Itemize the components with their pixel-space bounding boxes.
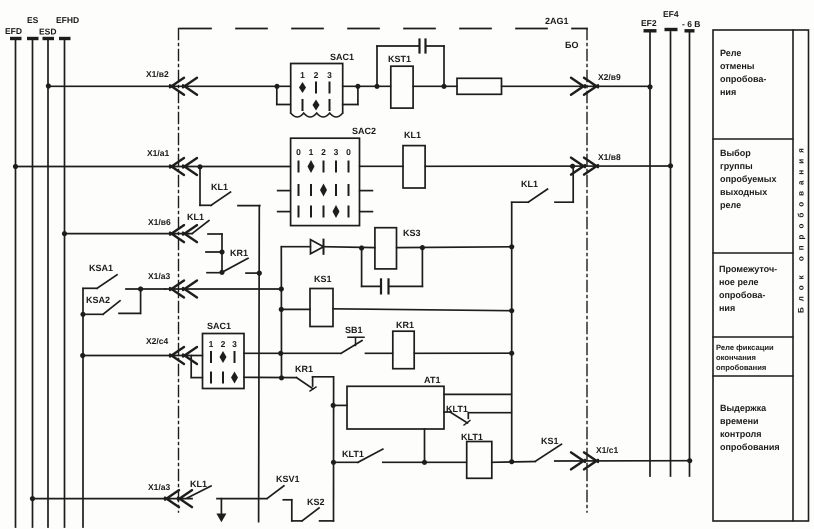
svg-text:Блок опробования: Блок опробования [797, 142, 806, 313]
note: Промежуточное реле опробования [719, 264, 777, 313]
connector X2/с4 [146, 336, 197, 364]
bus EF2 [641, 18, 657, 476]
svg-text:ния: ния [720, 87, 736, 97]
contact KS2 [302, 497, 334, 521]
wire row4 to junction 281 [165, 286, 284, 291]
relay coil KS1 [310, 274, 514, 327]
wire row3 from EFHD bus [62, 231, 192, 236]
contact KL1 (row3) [187, 212, 222, 234]
svg-text:времени: времени [720, 416, 759, 426]
wire vertical 259 [257, 206, 262, 522]
svg-text:опробования: опробования [716, 363, 766, 372]
svg-text:Промежуточ-: Промежуточ- [719, 264, 777, 274]
button SB1 [341, 325, 393, 353]
switch SAC1 (top) [274, 52, 360, 117]
contact KL1 (from row2 down) [200, 167, 260, 206]
svg-text:опробова-: опробова- [719, 290, 765, 300]
bus -6V [682, 19, 700, 476]
bus EFD [5, 26, 22, 527]
note: Реле фиксации окончания опробования [716, 343, 774, 372]
svg-text:отмены: отмены [720, 61, 755, 71]
contact KL1 (bottom row) [186, 479, 267, 499]
svg-text:реле: реле [720, 200, 741, 210]
connector X1/а3 (bottom) [148, 482, 192, 507]
wire vertical 512 (main right collector) [511, 202, 513, 461]
svg-text:ния: ния [719, 303, 735, 313]
svg-text:опробова-: опробова- [720, 74, 766, 84]
svg-text:контроля: контроля [720, 429, 761, 439]
wire SAC1 out row B [244, 375, 297, 380]
svg-text:выходных: выходных [720, 187, 767, 197]
diode VD [281, 240, 375, 254]
svg-text:опробуемых: опробуемых [720, 174, 777, 184]
wire row2 from EFD bus [13, 164, 291, 170]
wire vertical 281 (246-378) [280, 247, 282, 378]
wire row1 from ESD bus to SAC1 [46, 83, 291, 88]
relay coil KLT1 [461, 432, 535, 478]
capacitor (parallel to KST1) [377, 40, 444, 87]
wire KSA vertical down to row5 and below [80, 314, 85, 527]
connector X1/а1 [147, 148, 197, 175]
contact KR1 (vertical chain) [206, 234, 259, 275]
wire bottom row from ES bus [30, 496, 192, 501]
bus ES [27, 15, 39, 527]
wire vertical 333 [331, 377, 337, 521]
contact KLT1 (KLT1 row) [334, 449, 467, 462]
wire row1 SAC1 to KST1 [358, 84, 391, 89]
contact KL1 (right, row2 to KS3 row) [512, 166, 574, 202]
svg-text:окончания: окончания [716, 353, 756, 362]
connector X2/в9 [571, 72, 653, 95]
switch SAC2 [278, 126, 376, 226]
block boundary 2AG1 top dashed [180, 16, 587, 50]
wire KS1 row [279, 307, 310, 312]
switch SAC1 (lower) [191, 321, 244, 389]
wire SAC1 out row A [244, 351, 341, 356]
contact KR1 (to AT1) [295, 364, 334, 391]
note: Блок опробования (vertical) [797, 142, 806, 313]
relay coil KST1 [388, 54, 457, 108]
timer AT1 [333, 375, 512, 429]
capacitor (parallel to KS3) [362, 248, 423, 294]
wire row5 X2/c4 [83, 355, 203, 357]
connector X1/в6 [148, 217, 197, 242]
connector X1/с1 [571, 445, 618, 469]
ground arrow [216, 499, 226, 523]
note: Выбор группы опробуемых выходных реле [720, 148, 777, 210]
bus ESD [39, 27, 56, 528]
svg-text:Реле: Реле [720, 48, 741, 58]
connector X1/а3 [148, 271, 197, 298]
note: Выдержка времени контроля опробования [720, 403, 780, 452]
relay coil KS3 [375, 228, 514, 269]
connector X1/в8 [571, 152, 621, 175]
note: Реле отмены опробования [720, 48, 766, 97]
contact KSV1 [267, 474, 302, 521]
resistor R [457, 78, 650, 94]
svg-text:Выбор: Выбор [720, 148, 751, 158]
svg-text:Реле фиксации: Реле фиксации [716, 343, 774, 352]
contact KSA1 [83, 263, 165, 289]
relay coil KL1 [360, 130, 674, 188]
annotation table frame [713, 30, 809, 521]
relay coil KR1 [393, 320, 515, 369]
svg-text:опробования: опробования [720, 442, 780, 452]
svg-text:Выдержка: Выдержка [720, 403, 767, 413]
contact KSA2 [80, 286, 143, 317]
bus EFHD [56, 15, 79, 527]
bus EF4 [663, 9, 679, 476]
contact KS1 (KLT1 row) [535, 436, 692, 463]
block boundary right dash-dot [586, 29, 588, 513]
wire AT1 bottom to KLT1 row [422, 429, 427, 465]
svg-text:группы: группы [720, 161, 753, 171]
svg-text:ное реле: ное реле [719, 277, 759, 287]
block boundary left dash-dot [178, 29, 180, 513]
contact KLT1 (at AT1 right) [444, 404, 512, 425]
connector X1/в2 [146, 69, 197, 95]
